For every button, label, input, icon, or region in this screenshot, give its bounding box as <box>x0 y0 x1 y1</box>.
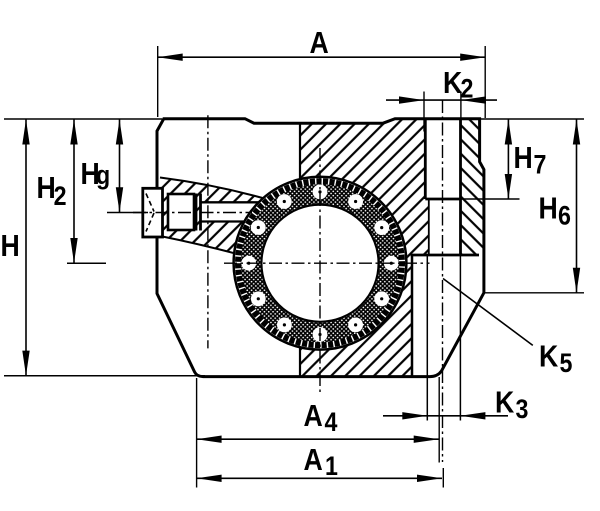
dimension K2 <box>423 92 425 132</box>
svg-text:A: A <box>310 26 329 60</box>
slot wall lines / K3 extension right <box>459 255 461 421</box>
ball 11 <box>251 220 266 235</box>
label H7 <box>514 141 547 180</box>
svg-text:2: 2 <box>460 74 473 104</box>
housing section hatch (main block) <box>233 119 429 377</box>
grease channel into bearing <box>201 202 263 221</box>
bearing vertical centreline <box>319 148 321 394</box>
svg-text:2: 2 <box>54 181 67 211</box>
svg-text:4: 4 <box>324 407 337 437</box>
nipple horizontal centreline <box>133 212 252 214</box>
svg-text:A: A <box>304 399 323 433</box>
clamping slot right wall <box>459 119 462 255</box>
ball 4 <box>384 256 399 271</box>
ball 12 <box>277 194 292 209</box>
bearing outer sleeve (tick band) <box>218 161 422 365</box>
slot inner wall below counterbore <box>428 199 430 255</box>
dimension H <box>25 120 27 376</box>
bearing inner rim circle <box>261 205 378 322</box>
dimension A1 <box>197 477 442 479</box>
dimension H2 <box>73 120 75 264</box>
svg-text:K: K <box>495 385 514 419</box>
section boundary line x=300 <box>299 123 301 376</box>
bearing horizontal centreline <box>224 262 430 264</box>
dimension K3 <box>383 415 427 417</box>
label H2 <box>37 171 67 211</box>
ball 9 <box>251 291 266 306</box>
label K2 <box>443 66 473 104</box>
svg-text:1: 1 <box>325 451 338 481</box>
label Hg <box>81 157 111 191</box>
label A <box>310 26 329 60</box>
ball 10 <box>241 256 256 271</box>
dimension H7 <box>507 120 509 200</box>
housing outline <box>157 119 484 377</box>
K5 leader line <box>443 279 533 346</box>
bearing cage (cross-hatched band) <box>241 184 399 342</box>
slot wall lines / K3 extension left <box>426 255 428 421</box>
ball 6 <box>348 318 363 333</box>
grease nipple body <box>168 194 194 230</box>
ball 3 <box>374 220 389 235</box>
label A1 <box>304 443 338 481</box>
svg-text:H: H <box>514 141 533 175</box>
label K5 <box>539 340 572 379</box>
dimension Hg <box>119 120 121 213</box>
top reference line (H/H2/Hg/H7/H6 upper datum) <box>4 118 162 120</box>
step vertical edge <box>411 255 414 377</box>
ball 5 <box>374 291 389 306</box>
slot step line <box>411 254 479 257</box>
label H <box>1 229 20 263</box>
label K3 <box>495 385 528 424</box>
label H6 <box>539 191 571 231</box>
svg-text:3: 3 <box>515 394 528 424</box>
svg-text:H: H <box>1 229 20 263</box>
svg-text:A: A <box>304 443 323 477</box>
ball 2 <box>348 194 363 209</box>
label A4 <box>304 399 338 437</box>
ball 7 <box>313 327 328 342</box>
bottom reference line (H lower datum) <box>4 375 205 377</box>
grease-nipple boss (hatched section) <box>160 178 266 257</box>
counterbore bottom <box>425 198 460 201</box>
grease nipple head <box>143 188 163 237</box>
housing section hatch (right clamp ear sliver) <box>461 119 484 255</box>
svg-text:7: 7 <box>534 150 547 180</box>
svg-text:6: 6 <box>558 201 571 231</box>
svg-text:H: H <box>539 191 558 225</box>
clamping slot left wall (K2 counterbore) <box>424 119 427 199</box>
dimension A <box>158 56 486 58</box>
svg-text:K: K <box>539 340 558 374</box>
dimension A4 <box>197 438 439 440</box>
svg-text:K: K <box>443 66 462 100</box>
bearing outer circle <box>234 177 407 350</box>
dimension H6 <box>576 120 578 293</box>
nipple head chamfer dashes <box>146 194 154 232</box>
mounting hole centreline <box>207 115 209 348</box>
ball 1 <box>313 185 328 200</box>
ball 8 <box>277 318 292 333</box>
svg-text:5: 5 <box>559 348 572 378</box>
svg-text:g: g <box>96 160 110 190</box>
clamp slot centreline <box>442 100 444 462</box>
nipple flange <box>195 194 198 231</box>
